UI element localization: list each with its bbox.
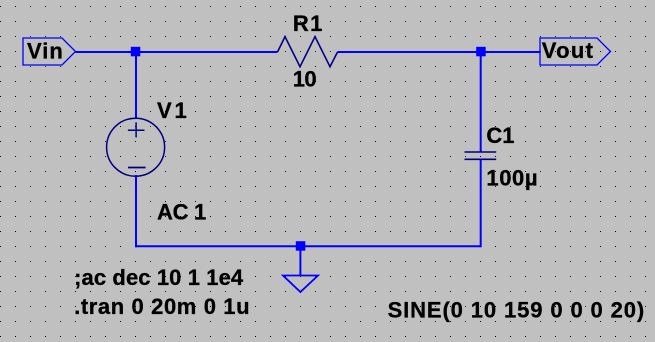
- wire node B down to capacitor C1 top: [480, 52, 482, 152]
- svg-text:AC 1: AC 1: [157, 200, 206, 225]
- svg-text:Vout: Vout: [542, 38, 594, 63]
- svg-text:SINE(0 10 159 0 0 0 20): SINE(0 10 159 0 0 0 20): [388, 297, 646, 322]
- svg-text:Vin: Vin: [27, 39, 64, 64]
- svg-text:10: 10: [293, 66, 317, 91]
- net flag Vin: [23, 38, 76, 65]
- wire node B to Vout flag: [481, 51, 540, 53]
- svg-text:R1: R1: [293, 11, 324, 36]
- svg-text:V1: V1: [157, 98, 190, 123]
- svg-text:.tran 0 20m 0 1u: .tran 0 20m 0 1u: [74, 294, 250, 319]
- wire capacitor C1 bottom to bottom rail: [480, 160, 482, 248]
- wire resistor R1 right to node B: [338, 51, 481, 53]
- wire node A down to V1 plus terminal: [135, 52, 137, 119]
- svg-text:100µ: 100µ: [486, 166, 538, 191]
- wire V1 minus terminal down to bottom rail: [135, 175, 137, 247]
- svg-text:;ac dec 10 1 1e4: ;ac dec 10 1 1e4: [74, 265, 244, 290]
- wire node A to resistor R1 left: [135, 51, 278, 53]
- node A junction (Vin/R1/V1): [131, 47, 141, 57]
- resistor R1: [278, 37, 338, 67]
- wire bottom rail V1 to ground node: [135, 245, 301, 247]
- voltage source V1: [107, 118, 165, 176]
- wire Vin flag to node A: [76, 51, 136, 53]
- capacitor C1: [465, 152, 497, 159]
- svg-text:C1: C1: [486, 123, 514, 148]
- ground: [283, 246, 318, 292]
- wire bottom rail ground node to C1: [301, 245, 481, 247]
- node B junction (R1/C1/Vout): [476, 47, 486, 57]
- net flag Vout: [540, 38, 611, 65]
- node ground junction: [296, 241, 306, 251]
